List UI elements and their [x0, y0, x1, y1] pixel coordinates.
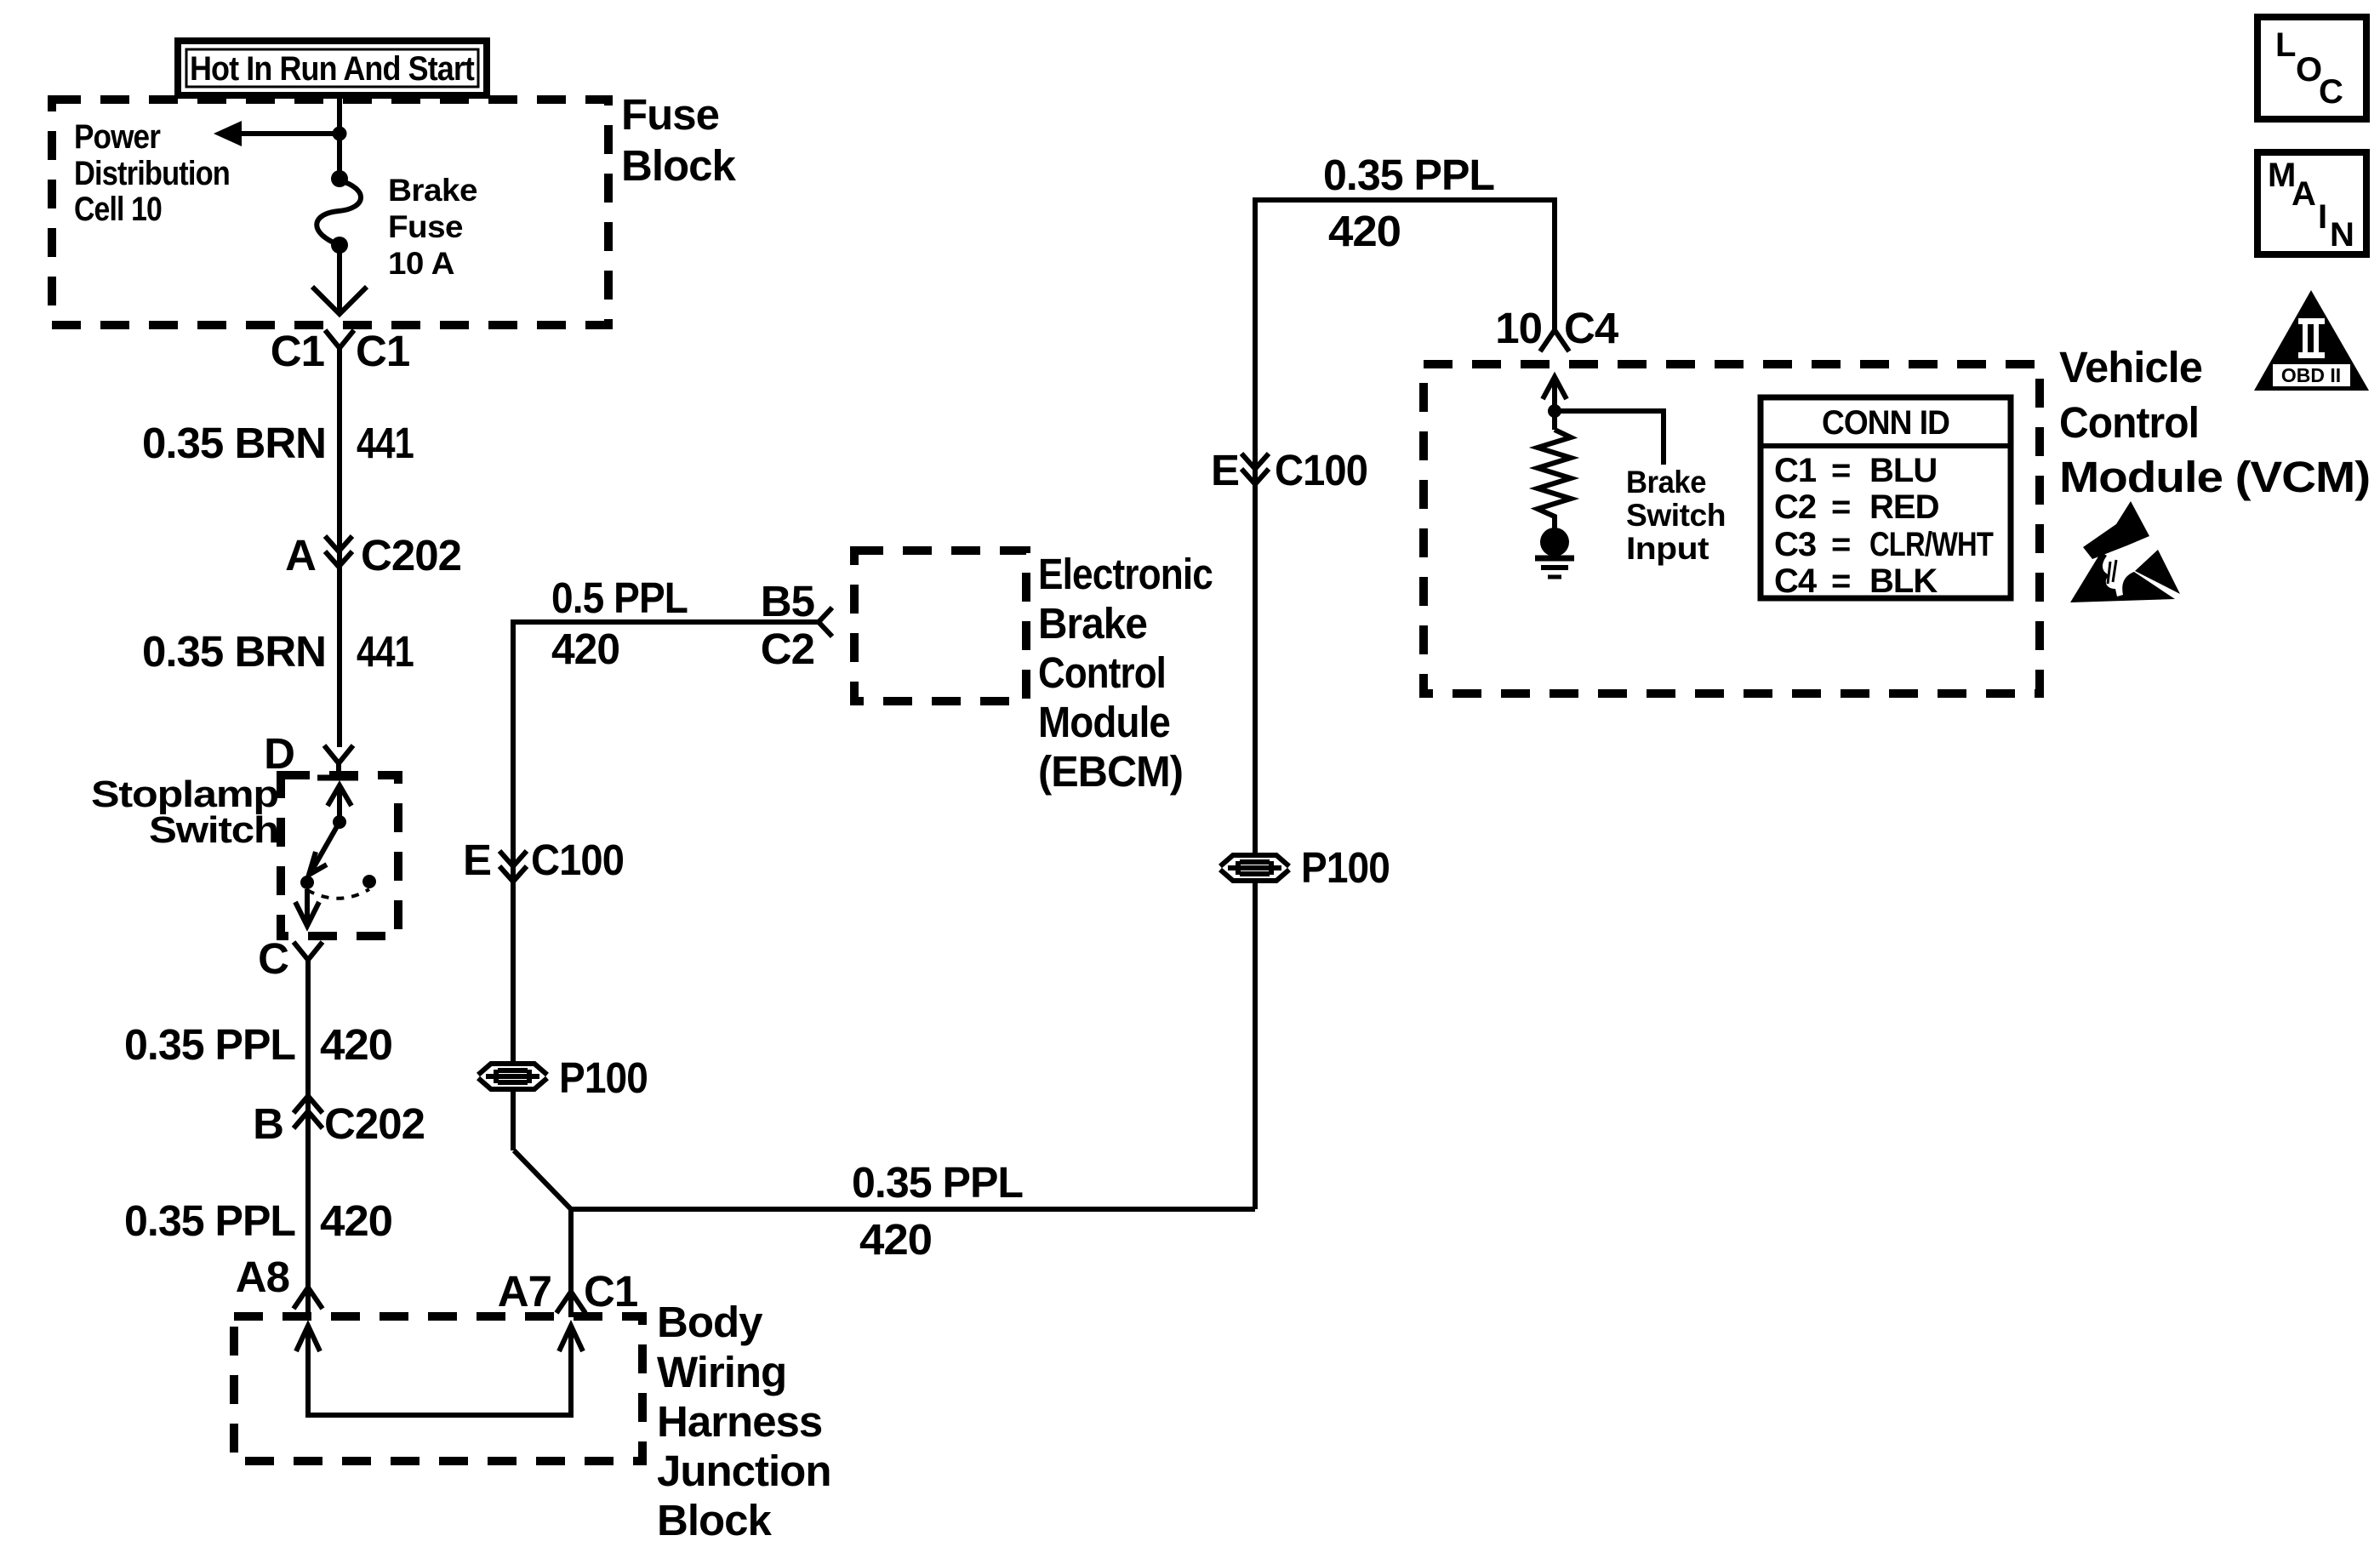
svg-text:CONN ID: CONN ID	[1822, 404, 1949, 442]
svg-text:C1: C1	[1774, 452, 1817, 489]
svg-text:C: C	[258, 934, 288, 983]
svg-text:C100: C100	[1275, 446, 1367, 494]
svg-text:Block: Block	[657, 1496, 773, 1544]
junction block internal loop wire	[296, 1326, 583, 1415]
svg-text:=: =	[1831, 452, 1850, 489]
svg-text:C202: C202	[324, 1099, 425, 1148]
switch up arrow	[328, 785, 351, 817]
connector E C100 right	[1241, 454, 1269, 484]
ground ball	[1540, 528, 1569, 557]
svg-text:441: 441	[357, 419, 414, 467]
svg-text:Input: Input	[1626, 531, 1709, 566]
wire fuse to arrow	[337, 252, 342, 311]
LOC page symbol	[2257, 17, 2366, 119]
svg-text:Wiring: Wiring	[657, 1348, 786, 1396]
svg-text:OBD II: OBD II	[2281, 364, 2341, 386]
wire 441 upper	[337, 346, 342, 747]
resistor (pull-down)	[1538, 430, 1571, 528]
svg-text:0.5 PPL: 0.5 PPL	[551, 574, 688, 622]
EBCM dashed box	[854, 551, 1026, 701]
svg-text:0.35 PPL: 0.35 PPL	[124, 1020, 295, 1069]
VCM input up arrow	[1543, 377, 1567, 430]
svg-text:Cell 10: Cell 10	[74, 191, 162, 228]
svg-text:Fuse: Fuse	[621, 90, 719, 139]
svg-text:BLK: BLK	[1869, 562, 1938, 600]
svg-text:E: E	[1211, 446, 1239, 494]
svg-text:O: O	[2296, 51, 2321, 88]
svg-text:CLR/WHT: CLR/WHT	[1869, 526, 1993, 563]
svg-text:Module (VCM): Module (VCM)	[2059, 453, 2370, 501]
switch arm	[311, 822, 340, 871]
connector 10 C4 male chevron	[1540, 330, 1569, 351]
svg-text:C2: C2	[761, 625, 814, 673]
connector A C202	[325, 536, 352, 567]
svg-text:Electronic: Electronic	[1038, 550, 1213, 598]
svg-text:420: 420	[859, 1215, 932, 1264]
svg-text:B: B	[253, 1099, 283, 1148]
stoplamp switch dashed box	[281, 775, 398, 936]
wire 0.35 PPL 420 horizontal run	[514, 1150, 1255, 1209]
svg-text:420: 420	[320, 1020, 392, 1069]
arrow to power distribution	[240, 131, 340, 136]
grommet P100 right	[1220, 843, 1390, 892]
svg-text:C202: C202	[361, 531, 461, 579]
VCM stub wire to sense circuit	[1555, 411, 1664, 465]
svg-text:A7: A7	[498, 1267, 551, 1316]
ground symbol	[1535, 556, 1574, 562]
svg-text:10 A: 10 A	[388, 246, 454, 281]
svg-text:420: 420	[320, 1196, 392, 1245]
switch pivot dot	[333, 815, 346, 829]
svg-text:10: 10	[1495, 304, 1542, 352]
fuse block dashed box	[52, 100, 608, 325]
svg-text:420: 420	[551, 625, 619, 673]
svg-text:=: =	[1831, 526, 1850, 563]
svg-text:E: E	[463, 836, 491, 884]
svg-text:C1: C1	[271, 327, 324, 375]
junction node dot	[333, 127, 347, 141]
svg-text:A: A	[2292, 175, 2315, 213]
svg-text:C1: C1	[584, 1267, 637, 1316]
svg-text:C1: C1	[356, 327, 409, 375]
grommet P100 left	[478, 1053, 648, 1102]
svg-text:Distribution: Distribution	[74, 155, 230, 192]
connector C female Y	[294, 942, 322, 960]
svg-text:Module: Module	[1038, 698, 1170, 746]
svg-text:A: A	[285, 531, 316, 579]
svg-text:(EBCM): (EBCM)	[1038, 747, 1183, 796]
wire from hot box to fuse	[337, 92, 342, 177]
svg-text:0.35 PPL: 0.35 PPL	[852, 1158, 1023, 1207]
svg-text:Body: Body	[657, 1298, 763, 1346]
switch dashed arc	[307, 889, 369, 899]
svg-text:C100: C100	[531, 836, 624, 884]
MAIN page symbol	[2257, 152, 2366, 254]
svg-text:Vehicle: Vehicle	[2059, 343, 2202, 391]
svg-text:=: =	[1831, 488, 1850, 526]
connector C1 C1 female Y	[325, 330, 354, 348]
svg-text:Hot In Run And Start: Hot In Run And Start	[190, 50, 475, 88]
svg-text:C4: C4	[1564, 304, 1619, 352]
svg-text:Harness: Harness	[657, 1397, 822, 1446]
connector D female Y	[324, 745, 353, 775]
connector E C100 left	[499, 851, 527, 882]
svg-text:Switch: Switch	[149, 809, 278, 851]
arrowhead down	[312, 287, 367, 314]
svg-text:Control: Control	[2059, 398, 2199, 447]
svg-text:Control: Control	[1038, 648, 1166, 697]
svg-text:N: N	[2330, 216, 2354, 254]
switch lower-left contact dot	[300, 876, 314, 889]
svg-text:0.35 PPL: 0.35 PPL	[1323, 151, 1494, 199]
svg-text:BLU: BLU	[1869, 452, 1937, 489]
connector B C202	[294, 1096, 322, 1128]
svg-text:C: C	[2319, 73, 2343, 111]
connector A7 C1 male chevron	[568, 1209, 574, 1317]
fuse F: Brake Fuse 10 A	[331, 170, 348, 187]
svg-text:Block: Block	[621, 141, 737, 190]
right tall wire	[1255, 200, 1555, 1209]
middle wire to EBCM	[513, 622, 819, 1150]
CONN ID table	[1761, 397, 2011, 600]
connector A8 male chevron	[294, 1287, 322, 1309]
svg-text:Junction: Junction	[657, 1447, 831, 1495]
svg-text:B5: B5	[761, 577, 814, 625]
switch exit down arrow	[295, 889, 319, 926]
power feed box "Hot In Run And Start"	[178, 41, 487, 95]
svg-text:Fuse: Fuse	[388, 209, 463, 244]
svg-text:Power: Power	[74, 118, 160, 156]
wire 420 left	[305, 958, 311, 1317]
svg-text:441: 441	[357, 627, 414, 676]
svg-text:0.35 BRN: 0.35 BRN	[142, 627, 326, 676]
svg-text:0.35 PPL: 0.35 PPL	[124, 1196, 295, 1245]
switch right contact dot	[362, 875, 376, 888]
VCM dashed box	[1424, 364, 2040, 694]
svg-text:420: 420	[1328, 207, 1401, 255]
svg-text:C4: C4	[1774, 562, 1818, 600]
svg-text:RED: RED	[1869, 488, 1939, 526]
svg-text:0.35 BRN: 0.35 BRN	[142, 419, 326, 467]
body wiring harness junction block dashed box	[234, 1316, 642, 1461]
svg-text:A8: A8	[236, 1253, 289, 1301]
svg-text:P100: P100	[559, 1053, 648, 1102]
svg-text:C2: C2	[1774, 488, 1816, 526]
svg-text:Brake: Brake	[1038, 599, 1147, 648]
svg-text:Brake: Brake	[388, 173, 477, 208]
OBD II symbol	[2254, 290, 2369, 391]
svg-text:I: I	[2318, 198, 2326, 236]
svg-text:D: D	[264, 729, 294, 778]
VCM node dot	[1548, 404, 1561, 418]
svg-text:C3: C3	[1774, 526, 1816, 563]
svg-text:=: =	[1831, 562, 1850, 600]
connector B5 C2 female into EBCM	[819, 608, 832, 636]
svg-text:P100: P100	[1301, 843, 1390, 892]
switch fixed contact bar	[317, 775, 358, 781]
svg-text:Switch: Switch	[1626, 498, 1726, 533]
svg-text:Brake: Brake	[1626, 465, 1706, 499]
ESD warning symbol	[2070, 501, 2180, 602]
svg-text:L: L	[2275, 26, 2296, 64]
